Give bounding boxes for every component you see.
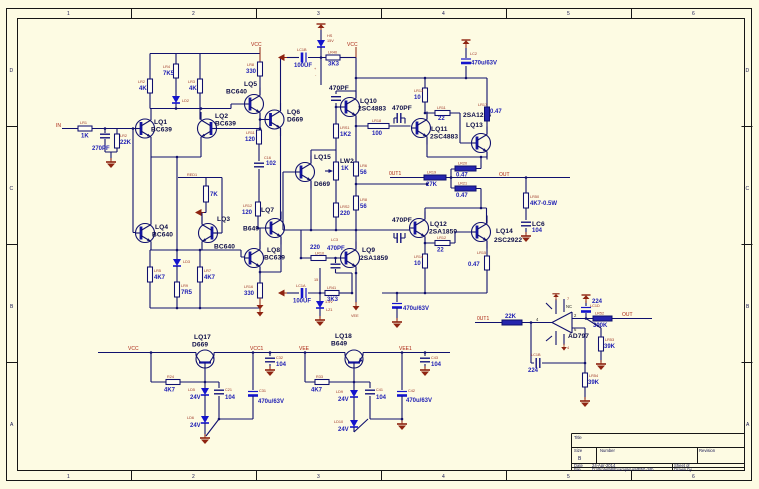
title block texts xyxy=(574,435,716,472)
resistor 22K xyxy=(115,134,132,148)
svg-text:LR13: LR13 xyxy=(414,89,423,93)
wire output line xyxy=(390,177,570,179)
svg-text:LC3: LC3 xyxy=(331,238,338,242)
zener LD5 24V xyxy=(188,388,209,416)
wire zener stem xyxy=(320,30,322,40)
node dots input stage xyxy=(104,107,262,309)
svg-text:LR12: LR12 xyxy=(243,204,252,208)
svg-text:BC640: BC640 xyxy=(152,232,173,239)
svg-text:IN: IN xyxy=(56,123,61,129)
transistor LQ17 D669 xyxy=(192,334,214,382)
resistor 0.47 out upper xyxy=(455,162,476,179)
svg-text:LR11: LR11 xyxy=(437,106,446,110)
svg-text:C43: C43 xyxy=(431,356,438,360)
ground zobel xyxy=(521,232,531,242)
svg-text:270PF: 270PF xyxy=(92,146,110,152)
svg-text:4K: 4K xyxy=(139,86,147,92)
svg-text:LR9: LR9 xyxy=(181,284,188,288)
svg-text:LQ3: LQ3 xyxy=(217,216,230,223)
capacitor 470PF speedup lower xyxy=(392,217,412,243)
svg-text:39K: 39K xyxy=(604,344,616,350)
wire 56-chain xyxy=(356,126,427,230)
resistor 39K lower xyxy=(583,373,600,387)
transistor LQ7 B649 xyxy=(243,212,285,245)
svg-text:D669: D669 xyxy=(287,117,303,124)
svg-text:15V: 15V xyxy=(327,39,334,43)
wire emitters join xyxy=(151,145,201,252)
transistor LQ9 2SA1859 xyxy=(341,242,389,275)
resistor LR1 1K xyxy=(78,121,92,140)
resistor LR8 330 xyxy=(246,62,263,76)
op-amp U1 AD797 xyxy=(536,299,589,345)
capacitor 470PF speedup upper xyxy=(392,105,412,124)
ground 39K lower xyxy=(580,397,590,407)
svg-text:330: 330 xyxy=(246,69,257,75)
svg-text:LQ14: LQ14 xyxy=(496,228,513,235)
svg-text:7R5: 7R5 xyxy=(181,290,193,296)
svg-text:LR21: LR21 xyxy=(458,182,467,186)
svg-text:3K3: 3K3 xyxy=(328,62,340,68)
transistor LQ13 2SA1216 xyxy=(463,112,491,160)
resistor 220 base xyxy=(301,230,341,261)
svg-text:LQ12: LQ12 xyxy=(430,221,447,228)
wire bottom rail xyxy=(150,282,260,310)
zener LD9 24V xyxy=(336,390,358,420)
node dots bottom rail xyxy=(150,351,427,420)
wire LQ15 collector xyxy=(311,150,336,164)
svg-text:2SC4883: 2SC4883 xyxy=(358,106,386,113)
capacitor 104 vcc1 xyxy=(265,353,287,377)
capacitor C21 104 xyxy=(206,382,236,436)
svg-text:104: 104 xyxy=(376,395,387,401)
wire collectors join xyxy=(150,109,200,113)
svg-text:0.47: 0.47 xyxy=(468,262,480,268)
wire VCC stem right xyxy=(355,47,357,58)
svg-text:LQ4: LQ4 xyxy=(155,224,168,231)
svg-text:5: 5 xyxy=(567,11,570,17)
border row letters xyxy=(10,68,751,428)
transistor LQ11 2SC4883 xyxy=(412,112,459,145)
svg-text:470u/63V: 470u/63V xyxy=(406,398,432,404)
svg-text:104: 104 xyxy=(276,362,287,368)
wire servo output xyxy=(572,318,652,320)
svg-text:HS: HS xyxy=(327,34,333,38)
resistor 22 upper xyxy=(435,106,450,122)
svg-text:BC639: BC639 xyxy=(215,121,236,128)
svg-text:LR5: LR5 xyxy=(154,269,161,273)
svg-text:LQ18: LQ18 xyxy=(335,333,352,340)
resistor LRS1 1K2 xyxy=(334,124,352,138)
capacitor C16 102 xyxy=(254,156,277,167)
svg-text:LR8: LR8 xyxy=(360,198,367,202)
svg-text:LD2: LD2 xyxy=(182,99,189,103)
resistor 0.47 out lower xyxy=(455,182,476,200)
svg-text:24V: 24V xyxy=(190,395,201,401)
svg-text:4K: 4K xyxy=(189,86,197,92)
svg-text:LQ15: LQ15 xyxy=(314,154,331,161)
resistor LR41 3K3 xyxy=(325,286,352,303)
svg-text:0.47: 0.47 xyxy=(490,109,502,115)
svg-text:D: D xyxy=(746,68,750,74)
wire LQ5 emitter / LQ6 base xyxy=(260,113,266,131)
svg-text:VCC: VCC xyxy=(128,346,139,352)
capacitor 470u/63V vcc1 xyxy=(219,353,284,420)
svg-text:24V: 24V xyxy=(338,427,349,433)
wire VCC stem xyxy=(259,47,261,62)
transistor LQ2 BC639 (mirrored) xyxy=(198,112,237,145)
resistor 56 upper xyxy=(354,162,368,176)
svg-text:Title: Title xyxy=(574,435,582,440)
resistor 10 lower xyxy=(414,243,428,293)
wire LQ6 emitter to LQ7 collector xyxy=(280,128,282,220)
svg-text:2SA1859: 2SA1859 xyxy=(360,255,388,262)
capacitor LC1D decouple xyxy=(581,295,603,319)
svg-text:LR10: LR10 xyxy=(315,252,324,256)
svg-text:LQ9: LQ9 xyxy=(362,247,375,254)
svg-text:LR7: LR7 xyxy=(204,269,211,273)
svg-text:LR16: LR16 xyxy=(244,285,253,289)
border column ticks bottom xyxy=(132,471,632,481)
wire LQ11 collector / 22 ohm feed xyxy=(425,113,472,143)
resistor 22K servo xyxy=(502,314,522,325)
svg-text:102: 102 xyxy=(266,161,277,167)
svg-text:39K: 39K xyxy=(588,380,600,386)
capacitor 470PF miller xyxy=(329,85,356,107)
svg-text:LD3: LD3 xyxy=(183,260,190,264)
svg-text:120: 120 xyxy=(242,210,253,216)
zener LZ1 15V xyxy=(314,268,333,318)
svg-text:4K7: 4K7 xyxy=(164,388,176,394)
capacitor 104 vee branch xyxy=(365,382,402,419)
resistor 7K xyxy=(204,186,219,202)
wire LQ11 emitter xyxy=(427,137,487,158)
svg-text:220: 220 xyxy=(340,211,351,217)
svg-text:VEE: VEE xyxy=(351,314,359,318)
resistor 7R5 xyxy=(175,282,193,297)
svg-text:BC639: BC639 xyxy=(264,255,285,262)
svg-text:D669: D669 xyxy=(192,342,208,349)
svg-text:C41: C41 xyxy=(376,388,383,392)
zener LD10 24V xyxy=(334,419,368,433)
svg-text:104: 104 xyxy=(532,228,543,234)
svg-text:2: 2 xyxy=(192,11,195,17)
wire LQ2 base to center xyxy=(216,128,260,130)
wire input xyxy=(62,128,136,130)
svg-text:0UT1: 0UT1 xyxy=(477,316,489,322)
resistor 22 lower xyxy=(435,236,450,254)
svg-text:5: 5 xyxy=(567,474,570,480)
svg-text:LQ11: LQ11 xyxy=(431,126,448,133)
transistor LQ15 D669 xyxy=(296,154,332,189)
svg-text:OUT: OUT xyxy=(622,312,633,318)
node dots servo xyxy=(530,317,588,364)
resistor 120 lower xyxy=(242,202,274,216)
wire bias tap xyxy=(178,178,222,234)
capacitor LC1A 100UF xyxy=(293,284,325,305)
wire LQ15 base xyxy=(283,172,296,230)
resistor LR16 330 xyxy=(244,283,263,298)
wire LQ10 emitter rail xyxy=(356,116,411,127)
svg-text:LR52: LR52 xyxy=(595,312,604,316)
svg-text:LQ6: LQ6 xyxy=(287,109,300,116)
svg-text:R33: R33 xyxy=(316,375,323,379)
svg-text:104: 104 xyxy=(225,395,236,401)
wire bottom rail xyxy=(98,352,450,354)
border row ticks left and right xyxy=(7,127,753,363)
input port top xyxy=(278,54,299,61)
svg-text:B649: B649 xyxy=(331,341,347,348)
svg-text:LQ8: LQ8 xyxy=(267,247,280,254)
power port arrow xyxy=(195,209,204,216)
svg-text:LR54: LR54 xyxy=(589,374,598,378)
wire diode branch xyxy=(150,78,200,120)
svg-text:1K: 1K xyxy=(81,134,89,140)
resistor 56 lower xyxy=(354,196,368,210)
resistor 120 upper xyxy=(245,130,262,144)
svg-text:LR1: LR1 xyxy=(80,121,87,125)
svg-text:B649: B649 xyxy=(243,226,259,233)
svg-text:15: 15 xyxy=(314,278,318,282)
capacitor 470u/63V lower xyxy=(392,293,429,328)
svg-text:LC1A: LC1A xyxy=(296,284,306,288)
svg-text:LR18: LR18 xyxy=(372,119,381,123)
svg-text:Size: Size xyxy=(574,448,583,453)
svg-text:220: 220 xyxy=(310,245,321,251)
svg-text:LR12: LR12 xyxy=(437,236,446,240)
power arrow cap top xyxy=(462,40,471,58)
svg-text:LC2: LC2 xyxy=(470,52,477,56)
transistor LQ18 B649 xyxy=(331,333,363,382)
wire zobel branch xyxy=(525,178,527,235)
resistor R24 4K7 xyxy=(164,375,180,394)
svg-text:4: 4 xyxy=(567,346,569,350)
resistor 0.47 bottom xyxy=(468,241,490,293)
transistor LQ4 BC640 xyxy=(136,217,174,250)
svg-text:LQ5: LQ5 xyxy=(244,81,257,88)
svg-text:LQ17: LQ17 xyxy=(194,334,211,341)
wire LQ9 collector xyxy=(355,230,357,250)
svg-text:C: C xyxy=(10,186,14,192)
wire 39K branch xyxy=(586,319,601,363)
earth ground red xyxy=(315,316,325,326)
svg-text:LC1B: LC1B xyxy=(531,353,541,357)
svg-text:1: 1 xyxy=(67,474,70,480)
transistor LQ14 2SC2922 xyxy=(472,216,523,249)
svg-text:470u/63V: 470u/63V xyxy=(258,399,284,405)
svg-text:470u/63V: 470u/63V xyxy=(403,306,429,312)
resistor LR2 4K xyxy=(138,79,153,93)
wire lower base rail xyxy=(283,229,411,231)
capacitor LC6 104 xyxy=(521,221,545,234)
svg-text:0UT1: 0UT1 xyxy=(389,171,401,177)
svg-text:470PF: 470PF xyxy=(329,85,349,92)
wire VEE bus xyxy=(382,292,487,294)
svg-text:104: 104 xyxy=(431,362,442,368)
svg-text:22: 22 xyxy=(438,116,445,122)
svg-text:22K: 22K xyxy=(505,314,517,320)
svg-text:0.47: 0.47 xyxy=(456,193,468,199)
power arrow top xyxy=(317,24,326,32)
svg-text:VEE1: VEE1 xyxy=(399,346,412,352)
svg-text:LD10: LD10 xyxy=(334,420,343,424)
svg-text:BC640: BC640 xyxy=(226,89,247,96)
wire LQ12 emitter xyxy=(425,208,487,223)
node dots output stage xyxy=(396,156,528,295)
svg-text:LR4: LR4 xyxy=(163,65,170,69)
wire top rail xyxy=(150,54,260,80)
capacitor LC1B 100UF xyxy=(294,48,326,69)
svg-text:RED1: RED1 xyxy=(187,173,197,177)
svg-text:LD9: LD9 xyxy=(336,390,343,394)
svg-text:330: 330 xyxy=(244,291,255,297)
svg-text:224: 224 xyxy=(592,299,603,305)
svg-text:LR8: LR8 xyxy=(247,63,254,67)
svg-text:Number: Number xyxy=(600,448,615,453)
svg-text:Revision: Revision xyxy=(699,448,716,453)
power stub marks xyxy=(552,294,569,351)
svg-text:2SC4883: 2SC4883 xyxy=(430,134,458,141)
wire LQ17 branch xyxy=(151,353,219,389)
svg-text:22K: 22K xyxy=(120,140,132,146)
svg-text:22: 22 xyxy=(437,248,444,254)
svg-text:100: 100 xyxy=(372,131,383,137)
svg-text:24V: 24V xyxy=(190,423,201,429)
svg-text:LQ2: LQ2 xyxy=(215,113,228,120)
svg-text:NC: NC xyxy=(566,304,572,309)
svg-text:470u/63V: 470u/63V xyxy=(471,61,497,67)
svg-text:LW2: LW2 xyxy=(340,158,354,165)
svg-text:7: 7 xyxy=(567,297,569,301)
border column numbers bottom xyxy=(67,474,695,480)
svg-text:C31: C31 xyxy=(259,389,266,393)
wire emitter rail xyxy=(150,250,245,267)
svg-text:LZ1: LZ1 xyxy=(326,308,333,312)
svg-text:470PF: 470PF xyxy=(392,217,412,224)
svg-text:120: 120 xyxy=(245,137,256,143)
svg-text:LQ1: LQ1 xyxy=(154,119,167,126)
svg-text:3: 3 xyxy=(317,474,320,480)
svg-text:LC6: LC6 xyxy=(532,221,545,228)
input port 2 xyxy=(278,290,299,297)
wire LQ5 collector xyxy=(200,76,260,109)
svg-text:LR19: LR19 xyxy=(427,171,436,175)
resistor 0.47 top xyxy=(478,103,502,135)
svg-text:3: 3 xyxy=(317,11,320,17)
svg-text:4K7: 4K7 xyxy=(154,275,166,281)
transistor LQ8 BC639 xyxy=(245,242,286,275)
svg-text:LQ7: LQ7 xyxy=(261,207,274,214)
svg-text:224: 224 xyxy=(528,368,539,374)
svg-text:100UF: 100UF xyxy=(294,63,312,69)
svg-text:2SC2922: 2SC2922 xyxy=(494,237,522,244)
ground xyxy=(106,158,116,168)
svg-text:LD6: LD6 xyxy=(187,416,194,420)
resistor LRS2 220 xyxy=(334,203,351,217)
svg-text:C16: C16 xyxy=(264,156,271,160)
ground 39K upper xyxy=(596,360,606,370)
svg-text:R24: R24 xyxy=(167,375,174,379)
wire LQ18 branch xyxy=(305,353,370,391)
svg-text:2SA1859: 2SA1859 xyxy=(429,229,457,236)
svg-text:LR3: LR3 xyxy=(188,80,195,84)
transistor LQ10 2SC4883 xyxy=(341,91,387,124)
svg-text:LR40: LR40 xyxy=(328,51,337,55)
svg-text:Drawn by: Drawn by xyxy=(674,467,693,472)
node dots vas stage xyxy=(300,56,468,294)
title block xyxy=(572,434,745,471)
svg-text:7K5: 7K5 xyxy=(163,71,175,77)
ground LQ17 branch xyxy=(200,434,210,444)
svg-text:C32: C32 xyxy=(276,356,283,360)
svg-text:1K: 1K xyxy=(341,166,349,172)
resistor 100 upper xyxy=(368,119,389,137)
wire LQ7 base xyxy=(258,216,266,228)
svg-text:LR17: LR17 xyxy=(478,103,487,107)
svg-text:File: File xyxy=(574,467,581,472)
wire input to LQ4 base xyxy=(133,129,136,233)
transistor LQ1 BC639 xyxy=(136,112,173,145)
svg-text:VEE: VEE xyxy=(299,346,310,352)
wire spreader column xyxy=(335,107,337,230)
resistor 10 upper xyxy=(414,88,428,113)
capacitor LC1B 224 xyxy=(528,353,541,374)
svg-text:LQ10: LQ10 xyxy=(360,98,377,105)
svg-text:10: 10 xyxy=(414,95,421,101)
svg-text:LR15: LR15 xyxy=(477,251,486,255)
zener HS 15V xyxy=(314,34,334,85)
svg-text:6: 6 xyxy=(692,11,695,17)
svg-text:LRS2: LRS2 xyxy=(340,205,350,209)
resistor LR40 3K3 xyxy=(326,51,356,68)
wire LQ10 base xyxy=(336,106,341,108)
svg-text:LR53: LR53 xyxy=(605,338,614,342)
wire LQ4/LQ3 collectors up xyxy=(151,157,202,225)
diode LD3 xyxy=(173,250,190,282)
svg-text:0.47: 0.47 xyxy=(456,173,468,179)
svg-text:7K: 7K xyxy=(210,192,218,198)
svg-text:4K7-0.5W: 4K7-0.5W xyxy=(530,201,557,207)
svg-text:470PF: 470PF xyxy=(392,105,412,112)
svg-text:D: D xyxy=(10,68,14,74)
wire VCC bus xyxy=(356,58,487,108)
svg-text:AD797: AD797 xyxy=(568,333,589,340)
capacitor 470u/63V top xyxy=(461,52,497,67)
svg-text:D669: D669 xyxy=(314,181,330,188)
resistor 390K xyxy=(593,312,612,330)
resistor LR50 4K7-0.5W xyxy=(524,193,558,208)
svg-text:LQ13: LQ13 xyxy=(466,122,483,129)
svg-text:C42: C42 xyxy=(408,389,415,393)
wire feedback lower xyxy=(531,323,585,400)
power VEE arrow lower xyxy=(257,298,264,310)
capacitor 104 vee1 xyxy=(420,353,442,377)
wire LQ7/LQ8 emitters join xyxy=(260,237,281,284)
wire LQ3 base xyxy=(211,232,222,234)
capacitor 470PF base-emitter xyxy=(327,238,345,273)
svg-text:LC1B: LC1B xyxy=(297,48,307,52)
svg-text:4K7: 4K7 xyxy=(204,275,216,281)
svg-text:2: 2 xyxy=(192,474,195,480)
svg-text:56: 56 xyxy=(360,204,367,210)
potentiometer LW2 1K xyxy=(325,158,354,180)
svg-text:LR11: LR11 xyxy=(246,131,255,135)
svg-text:24V: 24V xyxy=(338,397,349,403)
svg-text:LR2: LR2 xyxy=(120,134,127,138)
border column ticks top xyxy=(132,9,632,19)
wire LQ6 collector stub xyxy=(280,58,282,112)
svg-text:4K7: 4K7 xyxy=(311,388,323,394)
resistor LR5 4K7 xyxy=(148,267,166,282)
